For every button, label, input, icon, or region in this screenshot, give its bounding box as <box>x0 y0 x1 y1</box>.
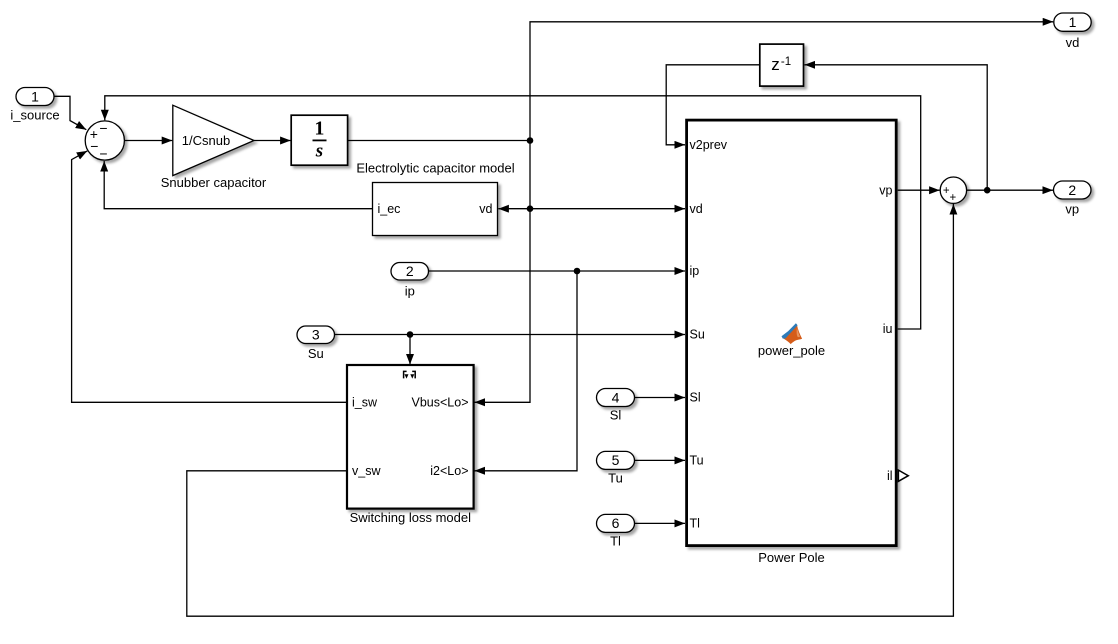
wire v_sw return to sum S2 bottom <box>187 204 954 616</box>
svg-text:Su: Su <box>690 328 705 342</box>
svg-text:5: 5 <box>612 452 620 468</box>
svg-text:Electrolytic capacitor model: Electrolytic capacitor model <box>356 161 514 176</box>
svg-text:1: 1 <box>1069 14 1077 30</box>
unconnected output port arrow il <box>898 470 908 481</box>
svg-text:Switching loss model: Switching loss model <box>350 510 471 525</box>
svg-text:ip: ip <box>405 284 415 299</box>
svg-text:Power Pole: Power Pole <box>758 550 824 565</box>
wire vd to Power Pole vd <box>530 208 685 210</box>
outport 2 vp <box>1054 181 1092 217</box>
svg-text:iu: iu <box>883 322 893 336</box>
svg-text:vd: vd <box>1066 35 1080 50</box>
junction on ip wire <box>574 268 581 275</box>
svg-text:6: 6 <box>612 515 620 531</box>
svg-text:2: 2 <box>406 263 414 279</box>
wire unit delay out to v2prev <box>666 65 760 145</box>
wire Sl to Power Pole <box>635 397 685 399</box>
wire Su to Power Pole <box>335 334 685 336</box>
svg-text:Sl: Sl <box>610 408 622 423</box>
svg-text:1/Csnub: 1/Csnub <box>182 133 230 148</box>
wire i_source to sum S1 <box>54 96 86 129</box>
svg-text:−: − <box>99 145 107 161</box>
sum block S1 (snubber node) <box>85 120 124 161</box>
svg-text:Sl: Sl <box>690 391 701 405</box>
wire Su branch to trigger of Switching loss model <box>409 335 411 365</box>
wire integrator out to vd node <box>348 140 530 142</box>
svg-text:vp: vp <box>1065 202 1079 217</box>
wire vp out of Power Pole to sum S2 <box>898 189 940 191</box>
wire ip branch to i2 of Switching loss model <box>474 271 577 471</box>
inport 6 Tl <box>597 514 635 548</box>
svg-text:Vbus<Lo>: Vbus<Lo> <box>412 395 469 409</box>
subsystem Switching loss model <box>347 365 474 525</box>
subsystem Electrolytic capacitor model <box>356 161 514 236</box>
wire vd node up to outport 1 <box>530 22 1053 141</box>
svg-text:vd: vd <box>479 202 492 216</box>
svg-text:vp: vp <box>879 183 892 197</box>
inport 4 Sl <box>597 389 635 423</box>
wire sum S1 to gain <box>125 140 173 142</box>
gain block 1/Csnub (Snubber capacitor) <box>161 105 267 190</box>
svg-text:s: s <box>315 140 323 161</box>
junction at vd row <box>527 205 534 212</box>
wire i_ec return to sum S1 bottom <box>104 161 372 209</box>
svg-text:v2prev: v2prev <box>690 138 728 152</box>
wire vd to Electrolytic capacitor model <box>498 208 530 210</box>
junction after sum S2 <box>984 187 991 194</box>
wire gain to integrator <box>254 140 291 142</box>
svg-text:2: 2 <box>1068 182 1076 198</box>
svg-text:−: − <box>99 120 107 136</box>
svg-text:Tu: Tu <box>690 454 704 468</box>
wire vd down to Vbus of Switching loss model <box>474 209 530 403</box>
svg-text:i_ec: i_ec <box>378 202 401 216</box>
svg-text:Tu: Tu <box>608 471 623 486</box>
svg-text:v_sw: v_sw <box>352 464 381 478</box>
inport 5 Tu <box>597 451 635 485</box>
svg-text:-1: -1 <box>781 56 791 68</box>
sum block S2 (vp adder) <box>940 177 966 204</box>
svg-text:3: 3 <box>312 327 320 343</box>
svg-text:Tl: Tl <box>690 517 700 531</box>
wire vd node down <box>529 141 531 209</box>
inport 1 i_source <box>10 88 59 123</box>
wire iu feedback to sum S1 top <box>105 96 921 329</box>
svg-text:il: il <box>887 469 893 483</box>
wire Tl to Power Pole <box>635 522 685 524</box>
svg-text:Snubber capacitor: Snubber capacitor <box>161 175 267 190</box>
inport 3 Su <box>297 326 335 361</box>
svg-text:Su: Su <box>308 346 324 361</box>
svg-text:i_source: i_source <box>10 108 59 123</box>
wire i_sw return to sum S1 lower-left <box>72 151 347 402</box>
svg-text:z: z <box>771 55 780 74</box>
svg-text:i_sw: i_sw <box>352 395 378 409</box>
unit delay block z^-1 <box>760 44 804 86</box>
junction on Su wire <box>407 331 414 338</box>
inport 2 ip <box>391 263 429 299</box>
outport 1 vd <box>1054 13 1091 50</box>
MATLAB Function block Power Pole <box>687 120 897 565</box>
wire vp junction up to unit delay input <box>805 65 988 190</box>
trigger port icon on Switching loss model <box>404 371 416 378</box>
svg-text:1: 1 <box>314 117 324 139</box>
wire ip to Power Pole <box>429 270 685 272</box>
svg-text:4: 4 <box>612 389 620 405</box>
integrator block 1/s <box>291 115 347 165</box>
svg-text:Tl: Tl <box>610 534 621 549</box>
svg-text:+: + <box>949 192 956 204</box>
junction at vd node top <box>527 137 534 144</box>
svg-text:power_pole: power_pole <box>758 343 825 358</box>
wire Tu to Power Pole <box>635 459 685 461</box>
svg-text:−: − <box>90 138 98 154</box>
wire sum S2 to outport 2 <box>967 189 1053 191</box>
svg-text:ip: ip <box>690 264 700 278</box>
svg-text:i2<Lo>: i2<Lo> <box>430 464 468 478</box>
svg-text:1: 1 <box>31 88 39 104</box>
MATLAB membrane logo <box>782 323 803 344</box>
svg-text:vd: vd <box>690 202 703 216</box>
